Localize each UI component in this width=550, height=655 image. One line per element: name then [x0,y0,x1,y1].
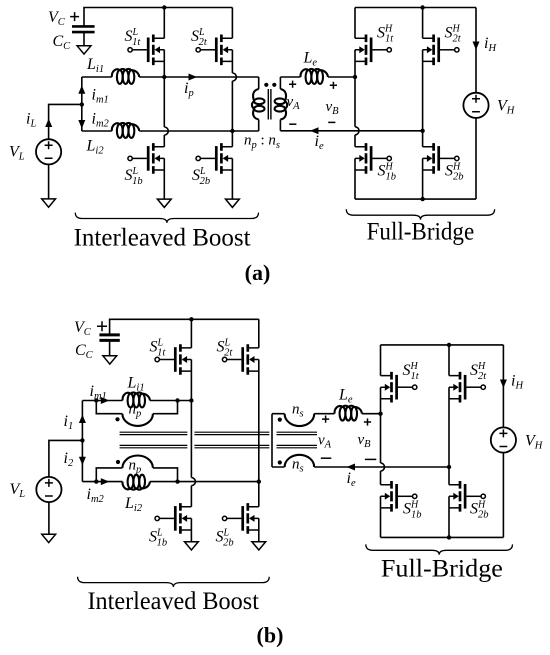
svg-text:Interleaved Boost: Interleaved Boost [74,225,251,252]
svg-text:SH1t: SH1t [403,361,420,382]
svg-text:Interleaved Boost: Interleaved Boost [87,588,259,615]
svg-text:Full-Bridge: Full-Bridge [367,219,475,246]
svg-text:SH1t: SH1t [377,24,394,45]
svg-text:Full-Bridge: Full-Bridge [381,556,503,583]
svg-text:(a): (a) [245,260,271,285]
svg-text:SH2t: SH2t [445,24,462,45]
svg-text:(b): (b) [257,623,284,648]
svg-text:np : ns: np : ns [244,133,280,151]
svg-text:SH2t: SH2t [470,361,487,382]
